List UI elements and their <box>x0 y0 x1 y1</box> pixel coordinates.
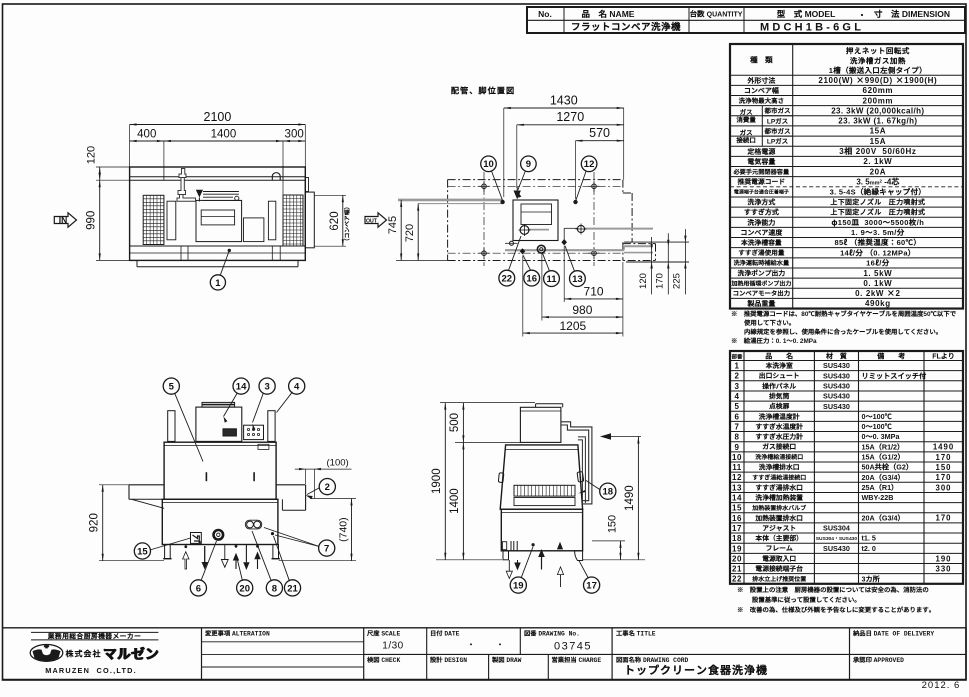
svg-text:製品重量: 製品重量 <box>746 299 775 309</box>
svg-text:本体（主要部）: 本体（主要部） <box>754 533 803 543</box>
svg-text:SUS430: SUS430 <box>823 381 850 390</box>
plan view small box <box>244 218 264 242</box>
svg-text:150: 150 <box>606 515 618 533</box>
svg-text:SUS430: SUS430 <box>823 544 850 553</box>
side view hood cap <box>536 403 563 405</box>
svg-text:都市ガス: 都市ガス <box>764 105 792 115</box>
plan view wash tank rect <box>196 200 242 241</box>
front view dim (740) <box>310 498 356 500</box>
svg-text:225: 225 <box>672 273 683 289</box>
svg-text:電気容量: 電気容量 <box>747 157 775 167</box>
spec table grid <box>730 74 963 76</box>
spec table frame <box>730 44 963 309</box>
piping tank leg <box>510 241 514 245</box>
svg-text:定格電源: 定格電源 <box>746 147 776 157</box>
svg-text:IN: IN <box>59 215 68 225</box>
svg-text:7: 7 <box>324 544 329 555</box>
front view balloon 3 <box>259 378 275 394</box>
svg-text:※ 推奨電源コードは、80℃耐熱キャブタイヤケーブルを周囲温: ※ 推奨電源コードは、80℃耐熱キャブタイヤケーブルを周囲温度50℃以下で <box>731 309 957 318</box>
side view lower body <box>501 509 582 551</box>
front view balloon 14 <box>233 378 249 394</box>
svg-text:LPガス: LPガス <box>767 115 789 125</box>
svg-text:2: 2 <box>325 482 330 493</box>
svg-text:2: 2 <box>735 372 740 381</box>
svg-text:外形寸法: 外形寸法 <box>746 76 775 86</box>
svg-text:すすぎ方式: すすぎ方式 <box>744 208 779 218</box>
plan view wash tank inner <box>201 210 234 225</box>
svg-text:4: 4 <box>294 382 300 393</box>
parts table frame <box>730 351 963 584</box>
front view item 21 bolt <box>271 532 274 535</box>
svg-text:都市ガス: 都市ガス <box>764 125 792 135</box>
svg-text:710: 710 <box>584 285 604 299</box>
front view twin outlet item 8 <box>245 520 261 529</box>
svg-text:14: 14 <box>732 494 742 503</box>
svg-text:19: 19 <box>732 544 742 553</box>
piping bottom pipe gray <box>505 249 624 251</box>
side view inner pipe <box>578 437 586 503</box>
svg-text:洗浄ポンプ出力: 洗浄ポンプ出力 <box>737 267 786 277</box>
svg-text:電源端子台適合圧着端子: 電源端子台適合圧着端子 <box>734 189 789 196</box>
piping balloon 10 <box>481 156 497 172</box>
plan view rear band lines <box>130 176 306 178</box>
svg-text:変更事項 ALTERATION: 変更事項 ALTERATION <box>204 629 270 638</box>
svg-text:21: 21 <box>732 565 742 574</box>
svg-text:消費量: 消費量 <box>736 114 756 124</box>
front view balloon 21 <box>284 580 300 596</box>
plan view right conveyor crosshatch <box>283 195 303 246</box>
piping tank inner rect <box>521 204 552 225</box>
svg-text:納品日 DATE OF DELIVERY: 納品日 DATE OF DELIVERY <box>852 629 934 638</box>
side view supply arrow black <box>600 433 611 439</box>
piping right pipe gray <box>585 228 654 230</box>
svg-text:190: 190 <box>935 554 951 563</box>
plan view dim 400-1400-300 <box>163 141 165 167</box>
svg-text:3: 3 <box>735 382 740 391</box>
piping rinse drain node 13 <box>561 239 567 245</box>
svg-text:1400: 1400 <box>449 488 461 514</box>
title block frame <box>3 627 967 629</box>
svg-text:排気筒: 排気筒 <box>768 390 790 400</box>
svg-text:20: 20 <box>239 583 250 594</box>
svg-text:21: 21 <box>287 583 298 594</box>
svg-text:出口シュート: 出口シュート <box>759 370 800 380</box>
side view conveyor hatch band <box>514 485 575 496</box>
svg-text:620: 620 <box>329 211 341 230</box>
front view hood display <box>223 429 236 436</box>
svg-text:570: 570 <box>589 126 610 140</box>
svg-text:0～0. 3MPa: 0～0. 3MPa <box>862 432 901 442</box>
svg-text:13: 13 <box>732 483 742 492</box>
svg-text:フレーム: フレーム <box>766 543 793 553</box>
svg-text:尺度 SCALE: 尺度 SCALE <box>366 629 400 638</box>
svg-text:9: 9 <box>735 443 740 452</box>
plan view dim 620 conveyor width <box>314 194 346 196</box>
svg-text:20A（G3/4）: 20A（G3/4） <box>862 513 905 523</box>
svg-text:すすぎ水温度計: すすぎ水温度計 <box>755 421 803 431</box>
front view right table <box>276 484 306 486</box>
front view left post <box>168 411 175 442</box>
side view body trapezoid <box>500 445 582 509</box>
side view left handle <box>498 473 504 483</box>
svg-text:洗浄槽温度計: 洗浄槽温度計 <box>758 411 800 421</box>
svg-text:検図 CHECK: 検図 CHECK <box>366 655 400 664</box>
svg-text:4: 4 <box>735 392 740 401</box>
svg-text:18: 18 <box>732 534 742 543</box>
svg-text:25A（R1）: 25A（R1） <box>862 483 899 493</box>
piping supply pipe gray <box>398 199 503 202</box>
svg-text:1900: 1900 <box>431 468 443 494</box>
svg-text:1430: 1430 <box>550 94 578 108</box>
svg-text:すすぎ湯排水口: すすぎ湯排水口 <box>755 482 803 492</box>
piping dim 710 <box>563 246 565 302</box>
svg-text:必要手元開閉器容量: 必要手元開閉器容量 <box>733 167 790 176</box>
svg-text:11: 11 <box>732 463 742 472</box>
front view left table <box>129 484 164 486</box>
parts table grid <box>730 360 963 362</box>
plan view right slot <box>268 201 275 240</box>
svg-text:1490: 1490 <box>933 443 954 452</box>
side view node dot 19 <box>532 543 535 546</box>
svg-text:t1. 5: t1. 5 <box>862 534 876 544</box>
svg-text:745: 745 <box>387 216 399 234</box>
side view dim 1490 <box>583 559 645 561</box>
front view dim (100) <box>305 469 307 484</box>
svg-text:株式会社: 株式会社 <box>65 648 102 659</box>
maruzen logo mark <box>30 645 63 662</box>
plan view vertical dividers <box>163 167 165 180</box>
side view lower opening <box>514 498 575 506</box>
front view hood cap <box>202 402 235 407</box>
svg-text:170: 170 <box>935 514 951 523</box>
svg-text:920: 920 <box>89 513 101 532</box>
front view small tag <box>258 444 269 449</box>
svg-text:1270: 1270 <box>556 110 584 124</box>
svg-text:15A（G1/2）: 15A（G1/2） <box>862 453 905 463</box>
svg-text:500: 500 <box>449 413 461 432</box>
front view right post <box>268 411 275 442</box>
svg-text:洗浄運転時補給水量: 洗浄運転時補給水量 <box>734 258 790 267</box>
svg-text:1: 1 <box>215 278 221 289</box>
svg-text:リミットスイッチ付: リミットスイッチ付 <box>862 371 928 381</box>
svg-text:3. 5mm2 -4芯: 3. 5mm2 -4芯 <box>856 176 900 187</box>
plan view body outline <box>130 167 306 260</box>
side view balloon 18 <box>600 483 616 499</box>
svg-text:8: 8 <box>272 583 277 594</box>
svg-text:15: 15 <box>137 546 148 557</box>
side view right pipe from hood <box>561 422 592 504</box>
svg-text:1490: 1490 <box>624 485 636 511</box>
svg-text:洗浄方式: 洗浄方式 <box>747 198 775 208</box>
svg-text:電源接続端子台: 電源接続端子台 <box>755 563 803 573</box>
svg-text:330: 330 <box>935 564 951 573</box>
piping tank drain ring node 11 <box>537 245 545 253</box>
plan view right top tab <box>305 178 308 192</box>
svg-text:型 式 MODEL: 型 式 MODEL <box>777 8 836 20</box>
piping tank drain pipe gray <box>528 229 549 231</box>
piping OUT arrow <box>365 213 387 227</box>
plan view left conveyor crosshatch <box>143 195 164 244</box>
front view lower body <box>162 499 278 544</box>
svg-text:※ 給湯圧力：0. 1～0. 2MPa: ※ 給湯圧力：0. 1～0. 2MPa <box>731 336 817 345</box>
front view dim 920 <box>99 484 129 486</box>
side view bottom pipe stubs <box>513 541 515 551</box>
svg-text:業務用総合厨房機器メーカー: 業務用総合厨房機器メーカー <box>47 631 142 641</box>
svg-text:本洗浄室: 本洗浄室 <box>765 360 793 370</box>
piping gas valve triangle node 9 <box>514 191 521 200</box>
svg-text:22: 22 <box>502 274 513 285</box>
svg-text:490kg: 490kg <box>865 298 891 309</box>
plan view dim 990 <box>96 259 130 261</box>
front view door handles <box>205 472 207 481</box>
piping dim 570 <box>575 141 577 199</box>
svg-text:980: 980 <box>572 303 592 317</box>
svg-text:20: 20 <box>732 554 742 563</box>
plan view right extension plate <box>305 192 314 248</box>
front view balloon 4 <box>289 378 305 394</box>
svg-text:5: 5 <box>169 382 175 393</box>
svg-text:図番 DRAWING No.: 図番 DRAWING No. <box>524 629 580 638</box>
svg-text:3. 5-4S（絶縁キャップ付）: 3. 5-4S（絶縁キャップ付） <box>830 186 926 197</box>
svg-text:15: 15 <box>732 504 742 513</box>
svg-text:17: 17 <box>732 524 742 533</box>
svg-text:工事名 TITLE: 工事名 TITLE <box>616 629 656 638</box>
piping dim 1270 <box>516 125 518 188</box>
svg-text:備 考: 備 考 <box>876 351 905 361</box>
svg-text:本洗浄槽容量: 本洗浄槽容量 <box>740 237 782 247</box>
svg-text:0～100℃: 0～100℃ <box>862 412 893 422</box>
svg-text:WBY-22B: WBY-22B <box>862 493 894 503</box>
svg-text:19: 19 <box>513 581 524 592</box>
svg-text:170: 170 <box>935 453 951 462</box>
front view knob item 6 <box>214 530 224 540</box>
piping node 10 dot <box>500 200 504 204</box>
svg-text:MDCH1B-6GL: MDCH1B-6GL <box>760 22 864 34</box>
title block row lines <box>364 653 966 655</box>
svg-text:※ 改善の為、仕様及び外観を予告なしに変更することがあります: ※ 改善の為、仕様及び外観を予告なしに変更することがあります。 <box>737 605 935 614</box>
svg-text:部番: 部番 <box>732 352 743 360</box>
front view balloon 8 <box>266 580 282 596</box>
svg-text:推奨電源コード: 推奨電源コード <box>737 176 786 186</box>
svg-text:アジャスト: アジャスト <box>762 522 796 532</box>
svg-text:配管、脚位置図: 配管、脚位置図 <box>451 85 515 97</box>
svg-text:300: 300 <box>935 483 951 492</box>
svg-text:50A共栓（G2）: 50A共栓（G2） <box>862 463 914 473</box>
plan view rear pipe arc <box>272 173 280 180</box>
svg-text:10: 10 <box>483 159 494 170</box>
svg-text:720: 720 <box>404 224 416 242</box>
svg-text:1: 1 <box>735 362 740 371</box>
svg-text:1/30: 1/30 <box>382 641 403 652</box>
side view dim 1400 <box>462 442 464 559</box>
piping balloon 12 <box>581 156 597 172</box>
svg-text:洗浄槽排水口: 洗浄槽排水口 <box>758 462 800 472</box>
side view hood <box>520 407 561 442</box>
piping legs <box>482 184 487 189</box>
front view control box item 15 <box>191 533 202 544</box>
plan view IN arrow <box>54 213 76 227</box>
svg-text:加熱用循環ポンプ出力: 加熱用循環ポンプ出力 <box>730 278 791 287</box>
front view balloon 6 <box>190 580 206 596</box>
piping right dims 120 170 225 <box>632 241 689 243</box>
front view bottom connection arrows <box>184 545 187 548</box>
svg-text:SUS430: SUS430 <box>823 402 850 411</box>
svg-text:150: 150 <box>935 463 951 472</box>
svg-text:120: 120 <box>638 273 649 289</box>
svg-text:・: ・ <box>468 640 475 650</box>
piping tank rect <box>513 200 558 241</box>
front view balloon 15 <box>134 543 150 559</box>
svg-text:操作パネル: 操作パネル <box>762 380 796 390</box>
svg-text:SUS304: SUS304 <box>823 524 850 533</box>
front view hood <box>196 407 242 441</box>
plan view dim 120 <box>96 166 130 168</box>
svg-text:製図 DRAW: 製図 DRAW <box>491 655 522 664</box>
side view legs <box>503 551 509 560</box>
svg-text:(740): (740) <box>338 517 350 542</box>
svg-text:10: 10 <box>732 453 742 462</box>
svg-text:すすぎ水圧力計: すすぎ水圧力計 <box>755 431 803 441</box>
svg-text:点検扉: 点検扉 <box>768 401 790 411</box>
svg-text:2100: 2100 <box>204 110 232 124</box>
svg-text:15A（R1/2）: 15A（R1/2） <box>862 442 905 452</box>
svg-text:※ 設置上の注意 厨房機器の設置については安全の為、消防法の: ※ 設置上の注意 厨房機器の設置については安全の為、消防法の <box>737 585 929 594</box>
svg-text:排水立上げ推奨位置: 排水立上げ推奨位置 <box>751 574 806 583</box>
svg-text:設計 DESIGN: 設計 DESIGN <box>430 655 467 664</box>
svg-text:SUS430: SUS430 <box>823 392 850 401</box>
svg-text:22: 22 <box>732 575 742 584</box>
title block verticals <box>201 628 203 680</box>
svg-text:17: 17 <box>586 581 597 592</box>
piping dim 720 <box>417 204 419 261</box>
svg-text:設置基準に従って設置してください。: 設置基準に従って設置してください。 <box>752 595 861 604</box>
piping outline chain rect <box>448 179 623 181</box>
plan view inlet pipe assembly <box>177 169 196 202</box>
piping balloons bottom <box>499 270 515 286</box>
svg-text:電源取入口: 電源取入口 <box>762 553 796 563</box>
svg-text:5: 5 <box>735 402 740 411</box>
plan view balloon 1 <box>228 249 231 252</box>
front view balloon 5 <box>163 378 179 394</box>
front view balloon 2 <box>319 479 335 495</box>
piping crosshair node right <box>577 225 584 232</box>
piping washer drain circle node 22 <box>520 226 529 235</box>
front view balloon 7 <box>319 540 335 556</box>
svg-text:1400: 1400 <box>211 129 237 141</box>
svg-text:すすぎ湯使用量: すすぎ湯使用量 <box>738 247 785 257</box>
piping dim 1430 <box>503 108 505 197</box>
svg-text:990: 990 <box>86 211 98 230</box>
svg-text:16: 16 <box>732 514 742 523</box>
svg-text:1205: 1205 <box>559 319 586 333</box>
svg-text:マルゼン: マルゼン <box>103 643 159 663</box>
svg-text:170: 170 <box>935 473 951 482</box>
svg-text:20A（G3/4）: 20A（G3/4） <box>862 473 905 483</box>
svg-text:洗浄槽給湯接続口: 洗浄槽給湯接続口 <box>755 452 803 461</box>
svg-text:18: 18 <box>603 487 614 498</box>
svg-text:400: 400 <box>137 129 156 141</box>
svg-text:使用して下さい。: 使用して下さい。 <box>743 318 795 327</box>
svg-text:承認印 APPROVED: 承認印 APPROVED <box>852 655 904 664</box>
svg-text:16: 16 <box>526 274 537 285</box>
svg-text:12: 12 <box>732 473 742 482</box>
svg-text:13: 13 <box>572 274 583 285</box>
svg-text:6: 6 <box>196 583 201 594</box>
svg-text:FLより: FLより <box>932 351 955 361</box>
svg-text:3: 3 <box>264 382 269 393</box>
svg-text:300: 300 <box>285 129 304 141</box>
svg-text:加熱装置排水口: 加熱装置排水口 <box>754 512 803 522</box>
svg-text:120: 120 <box>86 146 98 164</box>
plan view bottom band lines <box>130 245 306 247</box>
side view dim 500 <box>455 441 520 443</box>
svg-text:上下固定ノズル 圧力噴射式: 上下固定ノズル 圧力噴射式 <box>830 197 925 207</box>
front view legs <box>165 545 171 559</box>
svg-text:OUT: OUT <box>366 218 378 224</box>
svg-text:3カ所: 3カ所 <box>862 574 881 584</box>
side view bottom drain box <box>502 542 506 550</box>
svg-text:SUS304・SUS430: SUS304・SUS430 <box>816 536 858 542</box>
svg-text:（コンベア幅）: （コンベア幅） <box>342 204 351 245</box>
plan view base line <box>137 266 298 268</box>
svg-text:2012. 6: 2012. 6 <box>922 680 961 691</box>
plan view left slot <box>167 201 176 240</box>
svg-text:洗浄物最大高さ: 洗浄物最大高さ <box>739 95 785 105</box>
svg-text:加熱装置排水バルブ: 加熱装置排水バルブ <box>751 503 807 512</box>
svg-text:SUS430: SUS430 <box>823 371 850 380</box>
svg-text:7: 7 <box>735 422 740 431</box>
svg-text:接続口: 接続口 <box>735 134 756 144</box>
svg-text:14: 14 <box>236 382 247 393</box>
piping heater drain diamond node 16 <box>520 248 526 254</box>
svg-text:12: 12 <box>584 159 595 170</box>
side view balloon 17 <box>584 577 600 593</box>
maker slogan with rules <box>31 631 158 633</box>
plan view rinse manifold <box>203 191 239 193</box>
side view bottom arrows <box>508 560 510 572</box>
svg-text:170: 170 <box>655 273 666 289</box>
svg-text:台数 QUANTITY: 台数 QUANTITY <box>690 9 743 20</box>
svg-text:ガス接続口: ガス接続口 <box>762 441 796 451</box>
header table frame <box>527 7 965 33</box>
plan view gas valve (filled triangle) <box>196 190 203 198</box>
svg-text:材 質: 材 質 <box>825 351 848 361</box>
svg-text:種 類: 種 類 <box>749 54 773 65</box>
svg-text:(100): (100) <box>327 458 349 469</box>
svg-text:洗浄槽加熱装置: 洗浄槽加熱装置 <box>754 492 803 502</box>
svg-text:11: 11 <box>546 274 557 285</box>
piping dim 980 <box>541 254 543 321</box>
svg-text:MARUZEN CO.,LTD.: MARUZEN CO.,LTD. <box>45 666 137 675</box>
front view control panel <box>244 425 264 439</box>
svg-text:t2. 0: t2. 0 <box>862 544 876 554</box>
piping balloon 9 <box>521 156 537 172</box>
svg-text:SUS430: SUS430 <box>823 361 850 370</box>
side view dim 1900 <box>440 402 535 404</box>
svg-text:すすぎ湯給湯接続口: すすぎ湯給湯接続口 <box>752 472 806 481</box>
svg-text:03745: 03745 <box>554 641 592 653</box>
svg-text:0～100℃: 0～100℃ <box>862 422 893 432</box>
svg-text:トップクリーン食器洗浄機: トップクリーン食器洗浄機 <box>624 662 768 678</box>
svg-text:LPガス: LPガス <box>767 136 789 146</box>
plan view dim 2100 <box>129 125 131 168</box>
svg-text:8: 8 <box>735 433 740 442</box>
svg-text:フラットコンベア洗浄機: フラットコンベア洗浄機 <box>571 19 681 33</box>
svg-text:内線規定を参照し、使用条件に合ったケーブルを使用してください: 内線規定を参照し、使用条件に合ったケーブルを使用してください。 <box>744 327 942 336</box>
svg-text:寸 法 DIMENSION: 寸 法 DIMENSION <box>874 8 950 20</box>
svg-text:6: 6 <box>735 412 740 421</box>
piping dim 745 <box>396 260 448 262</box>
